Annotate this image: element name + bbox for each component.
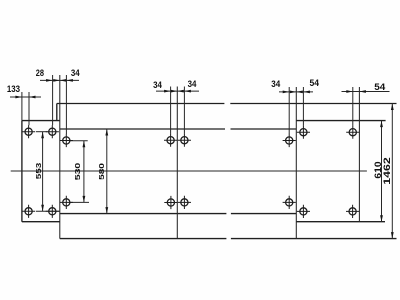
arrows 133	[15, 96, 22, 99]
arrows 580	[105, 129, 108, 136]
svg-text:553: 553	[34, 163, 43, 180]
arrows 1462	[391, 104, 394, 111]
left plate right edge / extension	[59, 75, 61, 239]
holes	[22, 125, 359, 218]
svg-text:34: 34	[188, 79, 197, 90]
hole right plate top 2	[346, 126, 359, 139]
hole left plate bottom 2	[46, 205, 59, 218]
dim 530 line	[83, 141, 85, 203]
left plate outline	[22, 121, 60, 222]
extension line far right hole	[352, 87, 354, 126]
extension line 133 left	[21, 92, 23, 121]
leader 553 top	[36, 131, 48, 133]
right plate top edge	[296, 120, 385, 122]
hole main bottom 1	[60, 196, 73, 209]
hole main top 1	[60, 134, 73, 147]
hole left plate bottom 1	[22, 205, 35, 218]
right plate bottom edge	[296, 221, 385, 223]
leader 530 top	[70, 140, 87, 142]
arrows 54	[346, 90, 353, 93]
hole left plate top 1	[22, 125, 35, 138]
centre line	[11, 170, 367, 172]
extension line mid hole B	[183, 87, 185, 134]
hole main top 2	[164, 134, 177, 147]
extension line 34 right	[65, 75, 67, 134]
hole main top 3	[178, 134, 191, 147]
dim 610 line	[381, 121, 383, 222]
arrows 34/54	[283, 91, 290, 94]
svg-text:1462: 1462	[382, 157, 393, 185]
joint line mid	[176, 87, 178, 239]
extension line right hole A	[288, 87, 290, 134]
dim 34/54 line	[279, 91, 313, 93]
dim 133 line	[10, 96, 41, 98]
svg-text:54: 54	[374, 82, 386, 93]
arrows 610	[380, 121, 383, 128]
svg-text:530: 530	[73, 162, 82, 180]
dim 28/34 line	[40, 79, 79, 81]
leader 530 bottom	[70, 201, 89, 203]
hole main bottom 3	[178, 196, 191, 209]
arrows 28/34	[46, 79, 53, 82]
right plate left edge / extension	[295, 87, 297, 239]
arrowheads	[15, 79, 393, 239]
arrows 553	[41, 132, 44, 139]
extension line 28 left	[52, 75, 54, 125]
arrows 34/34	[164, 90, 171, 93]
right plate right edge / extension	[358, 87, 360, 222]
dim 553 line	[42, 132, 44, 212]
hole main bottom 4	[283, 196, 296, 209]
hole right plate bottom 1	[297, 205, 310, 218]
hole main top 4	[283, 134, 296, 147]
main plate second line	[60, 128, 296, 130]
dim 580 line	[106, 129, 108, 214]
dim 1462 line	[391, 104, 393, 239]
dim 54 line	[342, 91, 390, 93]
svg-text:580: 580	[97, 163, 106, 180]
svg-text:34: 34	[153, 80, 162, 91]
svg-text:34: 34	[271, 79, 281, 90]
dim 34/34 line	[156, 90, 199, 92]
hole main bottom 2	[164, 196, 177, 209]
hole right plate bottom 2	[346, 205, 359, 218]
hole right plate top 1	[297, 126, 310, 139]
extension line right hole B	[302, 87, 304, 126]
svg-text:28: 28	[36, 68, 45, 79]
main plate bottom edge	[60, 238, 397, 240]
svg-text:133: 133	[7, 84, 20, 95]
hole left plate top 2	[46, 125, 59, 138]
main plate left edge	[56, 104, 58, 121]
svg-text:54: 54	[309, 78, 319, 89]
extension line mid hole A	[170, 87, 172, 134]
svg-text:34: 34	[71, 68, 80, 79]
extension line 133 right	[28, 92, 30, 125]
dimension lines	[10, 80, 392, 238]
leader 553 bottom	[36, 210, 60, 212]
main plate top edge	[57, 103, 397, 105]
main plate lower inner line	[60, 213, 296, 215]
arrows 530	[83, 141, 86, 148]
